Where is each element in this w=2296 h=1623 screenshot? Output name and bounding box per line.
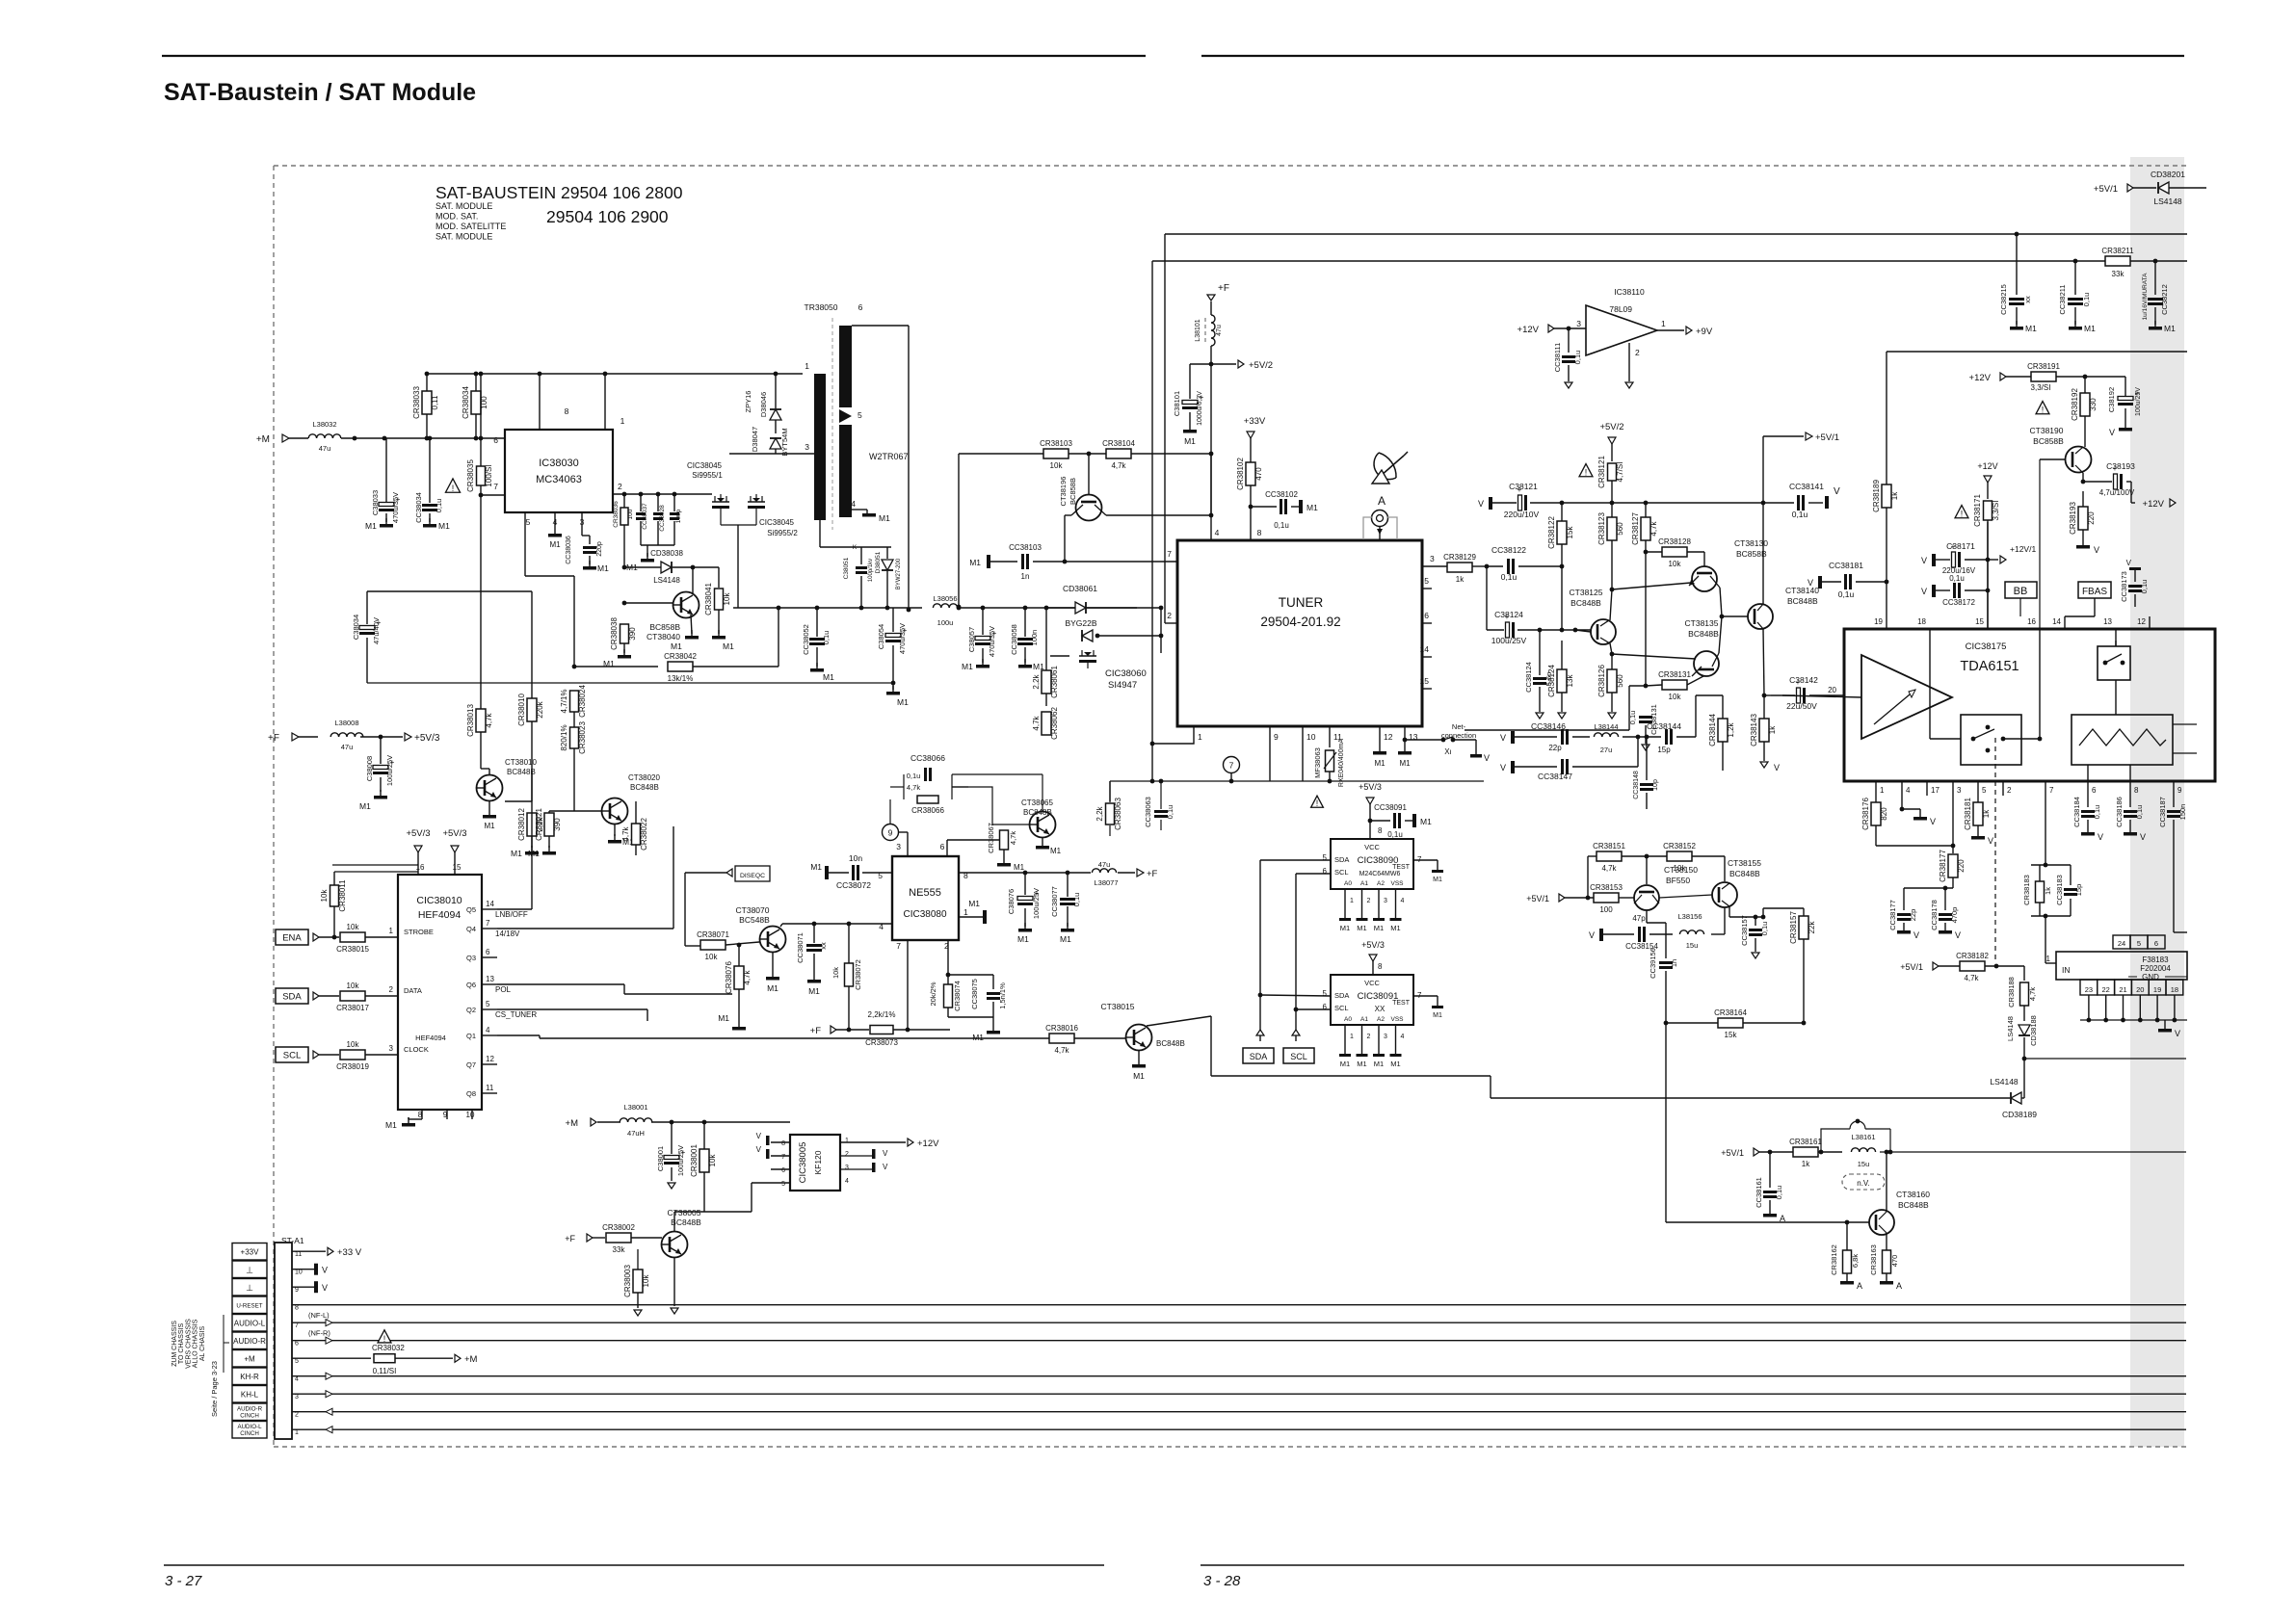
svg-text:8: 8 bbox=[781, 1140, 785, 1147]
svg-text:470u/35V: 470u/35V bbox=[898, 623, 907, 654]
svg-text:470: 470 bbox=[1254, 467, 1263, 481]
svg-text:14/18V: 14/18V bbox=[495, 929, 520, 938]
svg-text:Net-: Net- bbox=[1452, 722, 1466, 731]
svg-text:C38001: C38001 bbox=[656, 1146, 665, 1171]
svg-text:20k/2%: 20k/2% bbox=[929, 982, 937, 1006]
svg-text:4,7k: 4,7k bbox=[1601, 864, 1617, 873]
svg-text:CC38124: CC38124 bbox=[1524, 662, 1533, 693]
svg-text:CR38188: CR38188 bbox=[2007, 977, 2016, 1008]
svg-text:V: V bbox=[2098, 832, 2103, 842]
svg-text:BYW27-200: BYW27-200 bbox=[896, 558, 902, 589]
svg-text:ZUM CHASSIS: ZUM CHASSIS bbox=[172, 1321, 178, 1367]
svg-text:24: 24 bbox=[2118, 939, 2125, 948]
svg-text:MOD. SAT.: MOD. SAT. bbox=[435, 212, 478, 222]
svg-text:M1: M1 bbox=[484, 822, 495, 830]
svg-text:10k: 10k bbox=[1669, 560, 1682, 568]
svg-text:100: 100 bbox=[1599, 905, 1613, 914]
svg-text:CT38065: CT38065 bbox=[1021, 798, 1053, 807]
svg-text:V: V bbox=[1500, 733, 1506, 743]
svg-text:V: V bbox=[1484, 753, 1490, 763]
svg-text:2: 2 bbox=[1635, 348, 1640, 357]
svg-text:CR38171: CR38171 bbox=[1973, 494, 1982, 527]
svg-text:ALLO CHASSIS: ALLO CHASSIS bbox=[193, 1319, 199, 1368]
svg-text:47p: 47p bbox=[1632, 914, 1646, 923]
svg-text:7: 7 bbox=[493, 482, 498, 491]
svg-text:CR38019: CR38019 bbox=[336, 1062, 369, 1071]
svg-text:CC38178: CC38178 bbox=[1930, 900, 1939, 930]
svg-text:23: 23 bbox=[2085, 985, 2093, 994]
svg-text:CT38040: CT38040 bbox=[647, 632, 680, 641]
svg-text:0,1u: 0,1u bbox=[1760, 922, 1769, 936]
svg-text:TEST: TEST bbox=[1392, 864, 1411, 871]
svg-text:BC848B: BC848B bbox=[1729, 869, 1760, 878]
svg-text:47u: 47u bbox=[319, 444, 331, 453]
svg-text:CC38211: CC38211 bbox=[2058, 284, 2067, 314]
svg-text:L38001: L38001 bbox=[623, 1103, 647, 1112]
svg-text:MOD. SATELITTE: MOD. SATELITTE bbox=[435, 222, 506, 231]
svg-text:4: 4 bbox=[1401, 898, 1405, 904]
svg-text:1,5n/1%: 1,5n/1% bbox=[998, 982, 1007, 1009]
svg-text:+9V: +9V bbox=[1696, 327, 1713, 337]
svg-text:5: 5 bbox=[1982, 786, 1987, 795]
svg-text:0,1u: 0,1u bbox=[1166, 805, 1174, 820]
svg-text:CLOCK: CLOCK bbox=[404, 1045, 429, 1054]
svg-text:SAT. MODULE: SAT. MODULE bbox=[435, 201, 492, 211]
svg-text:CC38173: CC38173 bbox=[2120, 571, 2128, 602]
svg-text:KF120: KF120 bbox=[813, 1150, 823, 1174]
svg-text:M1: M1 bbox=[1050, 847, 1062, 855]
svg-text:+F: +F bbox=[810, 1026, 822, 1036]
svg-text:⊥: ⊥ bbox=[246, 1283, 253, 1293]
svg-text:+12V: +12V bbox=[1517, 325, 1540, 335]
svg-text:M1: M1 bbox=[767, 983, 779, 993]
svg-text:CC38144: CC38144 bbox=[1647, 721, 1681, 731]
svg-text:M1: M1 bbox=[597, 563, 609, 573]
svg-text:13k: 13k bbox=[1566, 674, 1574, 688]
svg-text:0,1u: 0,1u bbox=[1949, 574, 1965, 583]
svg-text:CT38150: CT38150 bbox=[1664, 865, 1698, 875]
svg-text:5: 5 bbox=[526, 517, 531, 527]
svg-text:CC38037: CC38037 bbox=[642, 503, 648, 530]
svg-text:4,7k: 4,7k bbox=[907, 783, 920, 792]
svg-text:3,3/SI: 3,3/SI bbox=[1992, 501, 2000, 521]
svg-text:4,7k: 4,7k bbox=[485, 712, 493, 727]
svg-text:CC38071: CC38071 bbox=[796, 932, 805, 963]
svg-text:CR38128: CR38128 bbox=[1658, 537, 1691, 546]
svg-text:VSS: VSS bbox=[1390, 1016, 1404, 1023]
svg-text:+M: +M bbox=[464, 1354, 478, 1365]
svg-text:+F: +F bbox=[268, 733, 279, 744]
svg-text:L38032: L38032 bbox=[312, 420, 336, 429]
svg-text:22p: 22p bbox=[1909, 909, 1917, 922]
svg-text:CR38061: CR38061 bbox=[1050, 666, 1059, 698]
svg-text:47uH: 47uH bbox=[627, 1129, 645, 1138]
svg-text:L38056: L38056 bbox=[933, 594, 957, 603]
svg-text:20: 20 bbox=[2136, 985, 2144, 994]
svg-text:0,1u: 0,1u bbox=[822, 631, 831, 645]
svg-text:220: 220 bbox=[1957, 859, 1966, 873]
svg-text:3: 3 bbox=[295, 1394, 299, 1400]
svg-text:+12V: +12V bbox=[1969, 373, 1992, 383]
svg-text:L38101: L38101 bbox=[1195, 319, 1201, 341]
svg-text:CR38072: CR38072 bbox=[854, 959, 862, 990]
svg-text:2: 2 bbox=[389, 985, 394, 994]
svg-text:+12V/1: +12V/1 bbox=[2010, 544, 2036, 554]
svg-text:BB: BB bbox=[2014, 586, 2028, 597]
svg-text:V: V bbox=[2140, 832, 2146, 842]
svg-text:CT38196: CT38196 bbox=[1059, 477, 1068, 507]
svg-text:100u/25V: 100u/25V bbox=[385, 755, 394, 786]
svg-text:1: 1 bbox=[1350, 1034, 1354, 1040]
svg-text:C38124: C38124 bbox=[1494, 610, 1523, 619]
svg-text:A0: A0 bbox=[1344, 880, 1352, 887]
svg-text:Q6: Q6 bbox=[466, 981, 476, 989]
svg-text:SDA: SDA bbox=[1334, 991, 1349, 1000]
svg-text:C38057: C38057 bbox=[967, 627, 976, 652]
svg-text:3,3/SI: 3,3/SI bbox=[2031, 383, 2051, 392]
svg-text:CR38153: CR38153 bbox=[1590, 883, 1623, 892]
svg-text:M1: M1 bbox=[438, 521, 450, 531]
svg-text:Q7: Q7 bbox=[466, 1060, 476, 1069]
svg-text:6: 6 bbox=[486, 948, 490, 956]
svg-text:M1: M1 bbox=[1306, 503, 1318, 512]
svg-text:Xı: Xı bbox=[1444, 747, 1452, 756]
svg-text:Q4: Q4 bbox=[466, 925, 476, 933]
svg-text:M1: M1 bbox=[1433, 877, 1442, 883]
svg-text:LS4148: LS4148 bbox=[653, 576, 680, 585]
svg-text:820/1%: 820/1% bbox=[560, 724, 568, 750]
svg-text:SI4947: SI4947 bbox=[1108, 680, 1137, 691]
svg-text:19: 19 bbox=[1874, 617, 1883, 626]
svg-text:4: 4 bbox=[295, 1376, 299, 1383]
svg-text:A2: A2 bbox=[1377, 880, 1385, 887]
svg-text:22k: 22k bbox=[1808, 921, 1816, 934]
svg-text:CR38076: CR38076 bbox=[725, 961, 733, 994]
svg-text:+5V/1: +5V/1 bbox=[1900, 962, 1923, 972]
svg-text:M1: M1 bbox=[1390, 924, 1400, 932]
svg-text:A0: A0 bbox=[1344, 1016, 1352, 1023]
svg-text:CC38103: CC38103 bbox=[1009, 543, 1042, 552]
svg-text:4,7k: 4,7k bbox=[1111, 461, 1126, 470]
svg-text:!: ! bbox=[1961, 510, 1964, 519]
svg-text:V: V bbox=[1808, 578, 1813, 588]
svg-text:14: 14 bbox=[2052, 617, 2061, 626]
svg-text:IN: IN bbox=[2062, 965, 2071, 975]
svg-text:CR38013: CR38013 bbox=[466, 704, 475, 737]
svg-text:CC38157: CC38157 bbox=[1740, 915, 1749, 946]
svg-text:CR38152: CR38152 bbox=[1663, 842, 1696, 851]
svg-text:BF550: BF550 bbox=[1666, 876, 1690, 885]
svg-text:CR38192: CR38192 bbox=[2071, 388, 2079, 421]
svg-text:3: 3 bbox=[1384, 898, 1387, 904]
svg-text:M1: M1 bbox=[365, 521, 377, 531]
svg-text:V: V bbox=[1921, 556, 1927, 565]
svg-text:STROBE: STROBE bbox=[404, 928, 434, 936]
svg-text:CD38188: CD38188 bbox=[2029, 1015, 2038, 1046]
svg-text:6: 6 bbox=[493, 435, 498, 445]
svg-text:CR38124: CR38124 bbox=[1547, 665, 1556, 697]
svg-text:HEF4094: HEF4094 bbox=[418, 909, 462, 921]
svg-text:11: 11 bbox=[295, 1251, 302, 1258]
svg-text:POL: POL bbox=[495, 985, 512, 994]
svg-text:+33V: +33V bbox=[1244, 416, 1266, 427]
svg-text:+5V/2: +5V/2 bbox=[1599, 422, 1623, 432]
svg-text:+5V/3: +5V/3 bbox=[1359, 782, 1382, 792]
svg-text:W2TR067: W2TR067 bbox=[869, 452, 909, 461]
svg-text:0,1u: 0,1u bbox=[435, 499, 443, 513]
svg-text:TEST: TEST bbox=[1392, 1000, 1411, 1007]
svg-text:V: V bbox=[1988, 836, 1993, 846]
svg-text:100p: 100p bbox=[675, 509, 682, 523]
svg-text:1k: 1k bbox=[1890, 491, 1899, 500]
svg-text:CR38062: CR38062 bbox=[1050, 707, 1059, 740]
svg-text:CR38151: CR38151 bbox=[1593, 842, 1625, 851]
svg-text:CC38052: CC38052 bbox=[802, 624, 810, 655]
svg-text:+33 V: +33 V bbox=[337, 1247, 362, 1258]
svg-text:CR38042: CR38042 bbox=[664, 652, 697, 661]
svg-text:VERS CHASSIS: VERS CHASSIS bbox=[185, 1319, 192, 1369]
svg-text:M1: M1 bbox=[879, 513, 890, 523]
svg-text:10: 10 bbox=[1306, 732, 1316, 742]
svg-text:21: 21 bbox=[2119, 985, 2126, 994]
svg-text:SCL: SCL bbox=[1290, 1052, 1307, 1061]
svg-text:DATA: DATA bbox=[404, 986, 422, 995]
svg-text:8: 8 bbox=[1378, 962, 1383, 971]
svg-text:9: 9 bbox=[888, 828, 893, 838]
svg-text:BC848B: BC848B bbox=[1023, 808, 1052, 817]
svg-text:F38183: F38183 bbox=[2142, 955, 2169, 964]
svg-text:0,11: 0,11 bbox=[431, 395, 439, 410]
svg-text:C38054: C38054 bbox=[877, 624, 885, 649]
svg-text:2: 2 bbox=[618, 482, 622, 491]
svg-text:V: V bbox=[1834, 486, 1840, 497]
svg-text:CC38172: CC38172 bbox=[1942, 598, 1975, 607]
svg-text:Q1: Q1 bbox=[466, 1032, 476, 1040]
svg-text:+12V: +12V bbox=[917, 1139, 939, 1149]
svg-text:5: 5 bbox=[295, 1358, 299, 1365]
svg-text:CR38016: CR38016 bbox=[1045, 1024, 1078, 1033]
svg-text:0,1u: 0,1u bbox=[2140, 580, 2149, 594]
svg-text:CR38017: CR38017 bbox=[336, 1004, 369, 1012]
svg-text:29504-201.92: 29504-201.92 bbox=[1260, 615, 1340, 629]
svg-text:SDA: SDA bbox=[1334, 855, 1349, 864]
svg-text:CT38190: CT38190 bbox=[2030, 426, 2064, 435]
svg-text:SAT-Baustein / SAT Module: SAT-Baustein / SAT Module bbox=[164, 79, 476, 106]
svg-text:4,7/SI: 4,7/SI bbox=[1616, 462, 1624, 483]
svg-text:V: V bbox=[2109, 428, 2115, 437]
svg-text:10k: 10k bbox=[642, 1274, 650, 1288]
svg-text:1k: 1k bbox=[1768, 725, 1777, 734]
svg-text:CR38034: CR38034 bbox=[462, 386, 470, 419]
svg-text:10k: 10k bbox=[347, 982, 360, 990]
svg-text:CT38070: CT38070 bbox=[736, 905, 770, 915]
svg-text:CIC38080: CIC38080 bbox=[903, 909, 946, 920]
svg-text:4: 4 bbox=[1215, 528, 1220, 537]
svg-text:33k: 33k bbox=[613, 1245, 626, 1254]
svg-text:CC38063: CC38063 bbox=[1144, 797, 1152, 827]
svg-text:LS4148: LS4148 bbox=[2153, 196, 2182, 206]
svg-text:15p: 15p bbox=[2074, 884, 2083, 897]
svg-text:78L09: 78L09 bbox=[1609, 304, 1632, 314]
svg-text:U-RESET: U-RESET bbox=[236, 1303, 262, 1310]
svg-text:0,11/SI: 0,11/SI bbox=[373, 1367, 397, 1375]
svg-text:5: 5 bbox=[781, 1181, 785, 1188]
svg-text:5: 5 bbox=[486, 1000, 490, 1008]
svg-text:4,7k: 4,7k bbox=[1032, 715, 1041, 730]
svg-text:CR38033: CR38033 bbox=[412, 386, 421, 419]
svg-text:4: 4 bbox=[486, 1026, 490, 1034]
svg-text:2: 2 bbox=[1167, 611, 1172, 620]
svg-text:17: 17 bbox=[1931, 786, 1940, 795]
svg-text:1k: 1k bbox=[1802, 1160, 1810, 1168]
svg-text:CR38035: CR38035 bbox=[466, 459, 475, 492]
svg-text:12: 12 bbox=[1384, 732, 1393, 742]
svg-text:VSS: VSS bbox=[1390, 880, 1404, 887]
svg-text:15k: 15k bbox=[1566, 526, 1574, 539]
svg-text:5: 5 bbox=[858, 410, 862, 420]
svg-text:5: 5 bbox=[1323, 989, 1328, 998]
svg-text:9: 9 bbox=[295, 1287, 299, 1294]
svg-text:M1: M1 bbox=[622, 837, 634, 847]
svg-text:L38008: L38008 bbox=[334, 719, 358, 727]
svg-text:CR38022: CR38022 bbox=[640, 818, 648, 851]
svg-text:V: V bbox=[1589, 930, 1595, 940]
svg-text:CC38072: CC38072 bbox=[836, 880, 871, 890]
svg-text:CR38012: CR38012 bbox=[517, 808, 526, 841]
svg-text:M1: M1 bbox=[359, 801, 371, 811]
svg-text:M1: M1 bbox=[897, 697, 909, 707]
svg-text:0,1u: 0,1u bbox=[1573, 351, 1582, 365]
svg-text:10p: 10p bbox=[1652, 779, 1659, 791]
svg-text:100: 100 bbox=[627, 509, 634, 519]
svg-text:BYT54M: BYT54M bbox=[780, 428, 789, 456]
svg-text:+5V/3: +5V/3 bbox=[406, 828, 430, 839]
svg-text:220k: 220k bbox=[536, 700, 544, 718]
svg-text:CR38182: CR38182 bbox=[1956, 952, 1989, 960]
svg-text:M1: M1 bbox=[969, 558, 981, 567]
svg-text:CINCH: CINCH bbox=[240, 1413, 259, 1420]
svg-text:BC848B: BC848B bbox=[1570, 598, 1601, 608]
svg-text:SDA: SDA bbox=[282, 992, 302, 1003]
svg-text:6: 6 bbox=[781, 1167, 785, 1174]
svg-text:BC858B: BC858B bbox=[1736, 549, 1767, 559]
svg-text:10k: 10k bbox=[320, 889, 329, 903]
svg-text:CC38184: CC38184 bbox=[2072, 797, 2081, 827]
svg-text:CD38189: CD38189 bbox=[2002, 1110, 2037, 1119]
svg-text:TR38050: TR38050 bbox=[805, 302, 838, 312]
svg-text:0,1u: 0,1u bbox=[2093, 805, 2101, 820]
svg-text:10n: 10n bbox=[849, 853, 862, 863]
svg-text:CR38176: CR38176 bbox=[1861, 798, 1870, 830]
svg-text:AUDIO-R: AUDIO-R bbox=[237, 1406, 263, 1413]
svg-text:BC848B: BC848B bbox=[671, 1217, 701, 1227]
svg-text:CR38143: CR38143 bbox=[1750, 714, 1758, 746]
svg-text:CC38066: CC38066 bbox=[910, 753, 945, 763]
svg-text:M1: M1 bbox=[1390, 1060, 1400, 1068]
svg-text:1k: 1k bbox=[1982, 809, 1991, 818]
svg-text:CR38163: CR38163 bbox=[1869, 1244, 1878, 1275]
svg-text:0,1u: 0,1u bbox=[1387, 830, 1403, 839]
svg-text:CR38067: CR38067 bbox=[987, 823, 995, 853]
svg-text:0,1u: 0,1u bbox=[1838, 589, 1855, 599]
svg-text:M1: M1 bbox=[528, 849, 540, 858]
svg-text:13: 13 bbox=[486, 975, 494, 983]
svg-text:15k: 15k bbox=[1725, 1031, 1738, 1039]
svg-text:!: ! bbox=[383, 1334, 386, 1344]
svg-text:V: V bbox=[756, 1132, 762, 1140]
svg-text:9: 9 bbox=[2177, 786, 2182, 795]
svg-text:3 - 27: 3 - 27 bbox=[165, 1573, 202, 1589]
svg-text:16: 16 bbox=[2027, 617, 2036, 626]
svg-text:SCL: SCL bbox=[1334, 868, 1349, 877]
svg-text:M1: M1 bbox=[972, 1033, 984, 1042]
svg-text:CC38077: CC38077 bbox=[1050, 886, 1059, 917]
svg-text:SAT-BAUSTEIN 29504 106 2800: SAT-BAUSTEIN 29504 106 2800 bbox=[435, 183, 683, 202]
svg-text:0,1u: 0,1u bbox=[907, 772, 921, 780]
svg-text:5: 5 bbox=[2137, 939, 2141, 948]
svg-text:CR38074: CR38074 bbox=[953, 981, 962, 1011]
svg-text:12: 12 bbox=[2137, 617, 2146, 626]
svg-text:CC38141: CC38141 bbox=[1789, 482, 1824, 491]
svg-text:CT38135: CT38135 bbox=[1685, 618, 1719, 628]
svg-text:V: V bbox=[1500, 763, 1506, 772]
svg-text:M1: M1 bbox=[1374, 924, 1384, 932]
svg-text:2: 2 bbox=[295, 1412, 299, 1419]
svg-text:CIC38060: CIC38060 bbox=[1105, 668, 1147, 679]
svg-text:CR38127: CR38127 bbox=[1631, 512, 1640, 545]
svg-text:+5V/2: +5V/2 bbox=[1249, 360, 1273, 371]
svg-text:10k: 10k bbox=[708, 1154, 717, 1167]
svg-text:CR38001: CR38001 bbox=[690, 1144, 699, 1177]
svg-text:C38171: C38171 bbox=[1946, 541, 1975, 551]
svg-text:CR38066: CR38066 bbox=[911, 806, 944, 815]
svg-text:1: 1 bbox=[620, 416, 625, 426]
svg-text:CR38003: CR38003 bbox=[623, 1265, 632, 1297]
svg-text:100u/25V: 100u/25V bbox=[1491, 636, 1527, 645]
svg-text:4,7k: 4,7k bbox=[1009, 831, 1017, 845]
svg-text:+5V/3: +5V/3 bbox=[414, 733, 440, 744]
svg-text:4,7/1%: 4,7/1% bbox=[560, 690, 568, 714]
svg-text:14: 14 bbox=[1420, 644, 1430, 654]
svg-text:Q3: Q3 bbox=[466, 954, 476, 962]
svg-text:M1: M1 bbox=[1433, 1012, 1442, 1019]
svg-text:CR38183: CR38183 bbox=[2022, 875, 2031, 905]
svg-text:1,2k: 1,2k bbox=[1727, 721, 1735, 737]
svg-text:D38047: D38047 bbox=[751, 427, 759, 452]
svg-text:M24C64MW6: M24C64MW6 bbox=[1359, 871, 1401, 877]
svg-text:470p: 470p bbox=[1950, 907, 1959, 924]
svg-text:CR38021: CR38021 bbox=[535, 808, 543, 841]
svg-text:1: 1 bbox=[295, 1429, 299, 1436]
svg-text:3: 3 bbox=[896, 842, 901, 851]
svg-text:13k/1%: 13k/1% bbox=[668, 674, 694, 683]
svg-text:IC38030: IC38030 bbox=[539, 458, 579, 469]
svg-text:0,1u: 0,1u bbox=[1792, 510, 1808, 519]
svg-text:CC38028: CC38028 bbox=[659, 505, 666, 532]
svg-text:BC848B: BC848B bbox=[1688, 629, 1719, 639]
svg-text:CR38126: CR38126 bbox=[1597, 665, 1606, 697]
svg-text:7: 7 bbox=[1167, 549, 1172, 559]
svg-text:DISEQC: DISEQC bbox=[740, 873, 765, 879]
svg-text:10k: 10k bbox=[347, 923, 360, 931]
svg-text:CR38104: CR38104 bbox=[1102, 439, 1135, 448]
svg-text:CR38191: CR38191 bbox=[2027, 362, 2060, 371]
svg-text:CR38015: CR38015 bbox=[336, 945, 369, 954]
svg-text:M1: M1 bbox=[671, 641, 682, 651]
svg-text:6: 6 bbox=[2154, 939, 2158, 948]
svg-text:V: V bbox=[322, 1283, 328, 1293]
svg-text:n.V.: n.V. bbox=[1857, 1179, 1870, 1188]
